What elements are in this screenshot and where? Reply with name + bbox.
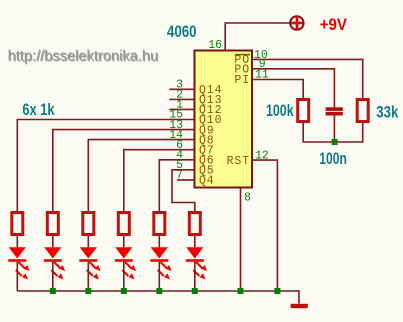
resistor R2 1k [47,213,58,235]
svg-text:PI: PI [234,74,250,87]
wire pin3 stub [169,88,194,90]
wire D5 to rail [158,262,160,291]
wire R6 to D6 [194,236,196,247]
wire D4 to rail [123,262,125,291]
wire pin13 to R column [53,130,195,211]
svg-text:12: 12 [255,149,269,162]
LED D6 [186,247,207,279]
wire R3 to D3 [87,236,89,247]
LED D2 [44,247,65,279]
wire D6 to rail [194,262,196,291]
svg-text:33k: 33k [376,103,399,121]
svg-text:4060: 4060 [167,23,197,41]
wire cap to RC node [333,115,335,142]
wire pin11 to R 100k [253,80,303,99]
wire R1 to D1 [16,236,18,247]
wire pin10 to R 33k [253,59,363,98]
svg-text:Q4: Q4 [199,175,215,188]
junction node rail [156,288,162,294]
wire pin4 to R column [159,160,194,211]
wire pin2 stub [169,98,194,100]
junction node pin12 rail [274,288,280,294]
junction node rail [121,288,127,294]
junction node pin8 rail [238,288,244,294]
wire D2 to rail [52,262,54,291]
wire RC bottom node [303,123,363,142]
resistor R6 1k [189,213,200,235]
resistor R3 1k [83,213,94,235]
wire D3 to rail [87,262,89,291]
wire pin8 GND to rail [240,189,242,292]
wire pin7 stub [177,179,195,181]
wire pin15 to R column [17,120,194,212]
capacitor 100n [326,107,343,115]
wire R5 to D5 [158,236,160,247]
resistor R1 1k [12,213,23,235]
wire R2 to D2 [52,236,54,247]
junction node rail [85,288,91,294]
svg-text:8: 8 [244,191,251,204]
resistor 33k [357,100,368,122]
resistor 100k [298,100,309,122]
LED D4 [115,247,136,279]
svg-text:16: 16 [208,39,222,52]
wire ground rail [17,291,299,304]
junction node RC [332,139,338,145]
svg-text:6x 1k: 6x 1k [22,101,55,119]
wire R4 to D4 [123,236,125,247]
wire pin5 to R column 6 [172,170,195,211]
junction node rail [50,288,56,294]
svg-text:+9V: +9V [320,16,347,34]
op-amp U1 4060 IC body [195,51,253,188]
svg-text:RST: RST [227,155,250,168]
LED D3 [79,247,100,279]
overline on PO [235,54,250,56]
watermark text [8,49,160,66]
power +9V symbol [290,16,303,31]
svg-text:11: 11 [255,69,269,82]
wire pin12 RST to rail [253,160,277,291]
wire pin16 to +9V [225,23,290,50]
svg-text:100k: 100k [266,102,294,120]
wire pin1 stub [169,108,194,110]
wire pin6 to R column [124,150,195,211]
LED D5 [150,247,171,279]
ground symbol [291,304,308,308]
svg-text:100n: 100n [319,150,347,168]
wire pin14 to R column [88,140,194,211]
junction node rail [192,288,198,294]
wire pin9 to C 100n [253,69,334,108]
svg-text:http://bsselektronika.hu: http://bsselektronika.hu [8,49,159,65]
LED D1 [8,247,29,279]
resistor R4 1k [118,213,129,235]
resistor R5 1k [154,213,165,235]
svg-text:5: 5 [176,159,183,172]
wire D1 to rail [16,262,18,291]
